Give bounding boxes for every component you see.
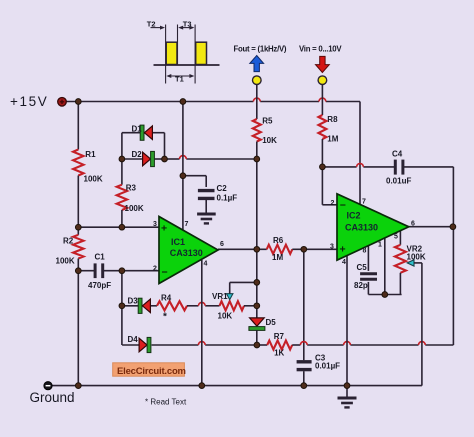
svg-text:C4: C4 [392,150,403,159]
svg-text:T3: T3 [183,20,192,29]
svg-text:C2: C2 [217,184,228,193]
svg-text:T1: T1 [175,75,184,84]
svg-text:6: 6 [220,241,224,248]
svg-text:10K: 10K [262,136,277,145]
svg-text:5: 5 [394,234,398,241]
svg-text:Fout = (1kHz/V): Fout = (1kHz/V) [234,45,287,54]
svg-text:R2: R2 [63,237,74,246]
svg-text:R3: R3 [126,184,137,193]
svg-text:Ground: Ground [30,390,75,405]
svg-text:R5: R5 [262,117,273,126]
svg-text:D1: D1 [132,125,143,134]
svg-text:−: − [162,266,168,278]
svg-text:D4: D4 [128,335,139,344]
svg-text:1: 1 [378,242,382,249]
svg-text:ElecCircuit.com: ElecCircuit.com [117,366,186,377]
svg-text:+: + [161,223,167,235]
svg-text:R8: R8 [327,115,338,124]
svg-text:+15V: +15V [10,94,48,109]
svg-text:3: 3 [330,244,334,251]
svg-text:VR1: VR1 [212,292,228,301]
svg-text:D3: D3 [128,297,139,306]
svg-text:100K: 100K [84,174,103,183]
svg-text:100K: 100K [407,253,426,262]
svg-text:CA3130: CA3130 [170,248,203,258]
svg-text:+: + [340,244,346,256]
svg-text:1M: 1M [272,253,283,262]
svg-text:100K: 100K [56,257,75,266]
svg-text:10K: 10K [218,312,233,321]
svg-text:* Read Text: * Read Text [145,398,187,407]
svg-text:Vin = 0...10V: Vin = 0...10V [299,45,342,54]
svg-text:2: 2 [153,266,157,273]
svg-text:R7: R7 [274,332,285,341]
svg-text:IC2: IC2 [347,211,361,221]
svg-text:*: * [163,312,167,323]
svg-text:C1: C1 [95,253,106,262]
svg-text:3: 3 [153,221,157,228]
svg-text:IC1: IC1 [171,237,185,247]
svg-text:82p: 82p [354,281,368,290]
svg-text:100K: 100K [125,204,144,213]
svg-text:470pF: 470pF [88,281,111,290]
svg-text:R6: R6 [273,236,284,245]
svg-text:R1: R1 [85,150,96,159]
svg-text:7: 7 [185,221,189,228]
svg-text:0.1µF: 0.1µF [217,194,238,203]
svg-text:−: − [340,199,346,211]
svg-text:D2: D2 [132,150,143,159]
svg-text:0.01uF: 0.01uF [386,177,411,186]
svg-text:1M: 1M [327,135,338,144]
svg-text:1K: 1K [274,348,284,357]
svg-text:4: 4 [342,259,346,266]
svg-text:0.01µF: 0.01µF [315,362,340,371]
svg-text:C5: C5 [357,263,368,272]
svg-text:R4: R4 [161,294,172,303]
svg-text:7: 7 [362,199,366,206]
svg-text:8: 8 [363,248,367,255]
svg-text:T2: T2 [147,20,156,29]
svg-text:2: 2 [331,200,335,207]
svg-text:6: 6 [411,221,415,228]
svg-text:D5: D5 [266,318,277,327]
svg-text:CA3130: CA3130 [345,223,378,233]
svg-text:4: 4 [204,261,208,268]
